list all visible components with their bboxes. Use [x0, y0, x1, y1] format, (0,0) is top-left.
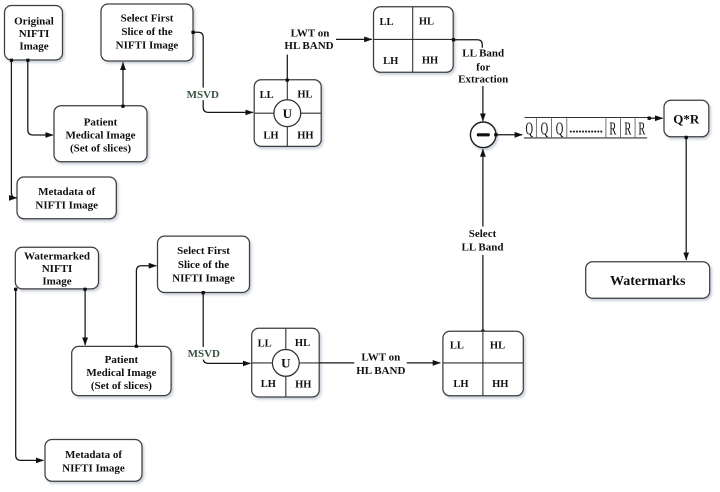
svg-text:NIFTI Image: NIFTI Image	[172, 272, 235, 284]
junction dot: Select1 right port	[191, 31, 194, 34]
U-box (top): quadrant box with U circle	[254, 80, 321, 147]
svg-text:LL: LL	[379, 17, 393, 28]
box: Metadata of NIFTI Image (top)	[17, 177, 116, 219]
box: Watermarks	[586, 262, 710, 299]
junction dot: Watermarked bottom-right	[83, 288, 86, 291]
junction dot: Original bottom-right	[26, 59, 29, 62]
junction dot: 2x2 top right port	[452, 38, 455, 41]
svg-text:HL: HL	[490, 341, 505, 352]
Q row overline	[525, 117, 648, 119]
svg-text:R: R	[624, 120, 631, 140]
svg-text:HH: HH	[295, 380, 311, 391]
junction dot: Patient bottom top port	[135, 345, 138, 348]
svg-text:MSVD: MSVD	[187, 89, 219, 101]
junction dot: U-box top center	[286, 79, 289, 82]
wire: Q*R down to Watermarks	[685, 137, 687, 260]
wire: LWT label to LWT 2x2 box (top)	[336, 38, 372, 40]
svg-text:Patient: Patient	[105, 354, 139, 366]
minus sign	[477, 133, 490, 136]
junction dot: Q*R bottom	[685, 136, 688, 139]
wire: Watermarked box to Metadata box (bottom)	[16, 290, 44, 460]
svg-text:LL: LL	[258, 339, 272, 350]
wire: Select First Slice (bottom) down to U-box (bottom) via MSVD	[203, 293, 250, 363]
wire: 2x2 box (top) to LL Band label corner	[453, 40, 482, 48]
svg-text:U: U	[281, 356, 291, 371]
junction dot: Original bottom-left	[10, 59, 13, 62]
box: Watermarked NIFTI Image	[15, 247, 98, 289]
U-box (bottom): quadrant box with U circle	[252, 328, 320, 397]
svg-text:MSVD: MSVD	[188, 348, 220, 360]
svg-text:Slice of the: Slice of the	[178, 259, 229, 271]
wire: minus circle to Q row	[496, 134, 522, 136]
svg-text:for: for	[476, 61, 490, 73]
junction dot: Select2 bottom port	[202, 291, 205, 294]
svg-text:LL Band: LL Band	[462, 241, 504, 253]
svg-text:Q: Q	[526, 120, 534, 140]
wire: Select LL Band label up to minus circle	[482, 149, 484, 226]
svg-text:LL Band: LL Band	[462, 48, 504, 60]
svg-text:Watermarks: Watermarks	[610, 274, 686, 289]
svg-text:Q: Q	[556, 120, 564, 140]
svg-text:HL: HL	[419, 16, 434, 27]
svg-text:NIFTI Image: NIFTI Image	[116, 39, 179, 51]
svg-text:Slice of the: Slice of the	[121, 26, 172, 38]
junction dot: Q row right end	[648, 117, 651, 120]
Q row cell dividers	[536, 118, 635, 137]
svg-text:NIFTI: NIFTI	[19, 28, 50, 40]
svg-text:LL: LL	[260, 90, 274, 101]
svg-text:LH: LH	[263, 130, 278, 141]
svg-text:HL: HL	[297, 89, 312, 100]
svg-text:Original: Original	[14, 15, 54, 27]
Q row: sequence cells QQQ ... RRR	[524, 118, 648, 140]
junction dot: Patient top	[121, 105, 124, 108]
box: Metadata of NIFTI Image (bottom)	[45, 440, 142, 482]
wire: Watermarked box to Patient box (bottom)	[84, 290, 86, 345]
svg-text:HL BAND: HL BAND	[356, 365, 405, 377]
wire: LWT label (bottom) to 2x2 box (bottom)	[407, 362, 441, 364]
U-box top divider: horizontal	[254, 112, 321, 114]
svg-text:Select First: Select First	[121, 12, 174, 24]
wire: Select First Slice to U-box via MSVD (top)	[193, 32, 253, 112]
svg-text:HH: HH	[422, 56, 438, 67]
svg-text:NIFTI Image: NIFTI Image	[62, 463, 125, 475]
LWT 2x2 box (bottom)	[443, 331, 523, 396]
junction dot: 2x2 bottom top port	[481, 330, 484, 333]
U circle (bottom)	[272, 350, 299, 377]
wire: Patient box (bottom) up to Select First Slice (bottom)	[136, 266, 156, 346]
U-box top divider: vertical	[286, 80, 288, 147]
box: Patient Medical Image (Set of slices) (bottom)	[72, 346, 171, 395]
svg-text:Watermarked: Watermarked	[24, 250, 90, 262]
svg-text:Extraction: Extraction	[458, 73, 508, 85]
wire: Original box to Metadata box (top)	[11, 61, 16, 198]
svg-text:Select: Select	[469, 228, 497, 240]
junction dot: minus circle right	[494, 133, 497, 136]
svg-text:HH: HH	[492, 379, 508, 390]
ellipsis dots in Q row	[570, 131, 603, 133]
svg-text:R: R	[638, 120, 645, 140]
U circle (top)	[274, 100, 301, 127]
wire: Patient box up to Select First Slice (top)	[122, 62, 124, 106]
wire: Q row to Q*R box	[649, 117, 662, 119]
divider vertical (2x2 top)	[412, 7, 414, 73]
svg-text:Metadata of: Metadata of	[38, 186, 95, 198]
U-box bottom divider: vertical	[285, 328, 287, 397]
minus circle (subtractor)	[470, 122, 496, 148]
svg-text:Q: Q	[541, 120, 549, 140]
wire: 2x2 box (bottom) up to Select LL Band label	[482, 255, 484, 331]
LWT 2x2 box (top)	[374, 7, 454, 73]
wire: Original box to Patient box (top)	[28, 61, 53, 135]
svg-text:Patient: Patient	[84, 116, 118, 128]
wire: U-box (bottom) right segment before LWT label	[319, 362, 354, 364]
wire: LL Band label down to minus circle	[482, 86, 484, 121]
box: Original NIFTI Image	[5, 6, 63, 61]
svg-text:Medical Image: Medical Image	[86, 367, 156, 379]
svg-text:(Set of slices): (Set of slices)	[70, 142, 131, 154]
svg-text:LWT on: LWT on	[291, 27, 330, 39]
svg-text:HL BAND: HL BAND	[284, 40, 333, 52]
svg-text:R: R	[609, 120, 616, 140]
svg-text:Image: Image	[19, 40, 48, 52]
divider vertical (2x2 bottom)	[482, 331, 484, 396]
svg-text:HL: HL	[295, 338, 310, 349]
label background: MSVD (bottom)	[186, 347, 223, 360]
svg-text:Metadata of: Metadata of	[65, 449, 122, 461]
svg-text:HH: HH	[297, 131, 313, 142]
junction dot: Watermarked bottom-left	[14, 288, 17, 291]
svg-text:(Set of slices): (Set of slices)	[91, 380, 152, 392]
svg-text:NIFTI Image: NIFTI Image	[35, 200, 98, 212]
svg-text:LWT on: LWT on	[361, 352, 400, 364]
svg-text:LL: LL	[450, 341, 464, 352]
box: Select First Slice of the NIFTI Image (bottom)	[158, 236, 250, 292]
divider horizontal (2x2 bottom)	[443, 362, 523, 364]
divider horizontal (2x2 top)	[374, 38, 454, 40]
label background: MSVD (top)	[185, 88, 222, 101]
svg-text:LH: LH	[383, 56, 398, 67]
box: Q*R	[664, 100, 709, 137]
wire: U-box top to LWT label (vertical stub)	[286, 55, 288, 80]
svg-text:U: U	[283, 106, 293, 121]
svg-text:Image: Image	[42, 275, 71, 287]
svg-text:Q*R: Q*R	[673, 111, 700, 126]
U-box bottom divider: horizontal	[252, 362, 320, 364]
box: Patient Medical Image (Set of slices) (top)	[54, 106, 147, 162]
Q row underline	[524, 137, 647, 139]
svg-text:Medical Image: Medical Image	[66, 129, 136, 141]
svg-text:LH: LH	[453, 379, 468, 390]
box: Select First Slice of the NIFTI Image (top)	[101, 4, 193, 61]
svg-text:LH: LH	[261, 379, 276, 390]
svg-text:Select First: Select First	[177, 245, 230, 257]
svg-text:NIFTI: NIFTI	[42, 263, 73, 275]
